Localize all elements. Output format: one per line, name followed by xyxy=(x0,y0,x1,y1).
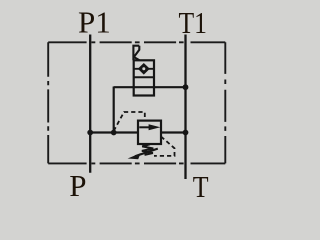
svg-text:T1: T1 xyxy=(179,5,208,40)
enclosure: valve block boundary (dash-dot rectangle) xyxy=(48,42,225,163)
wire: branch vertical from check valve down to relief inlet xyxy=(113,87,115,133)
relief valve RV1 xyxy=(128,121,161,160)
check valve V1 xyxy=(133,46,154,96)
enclosure left edge xyxy=(47,42,49,163)
pilot line (dashed) from inlet junction to relief valve top xyxy=(114,112,145,131)
check valve ball xyxy=(142,67,145,70)
junction dot: P line at relief branch xyxy=(87,130,93,136)
check valve spring xyxy=(133,46,139,61)
enclosure top edge xyxy=(48,41,225,43)
check valve divider xyxy=(134,76,154,78)
svg-text:P1: P1 xyxy=(78,5,111,40)
check valve seat diamond xyxy=(138,63,150,75)
svg-text:P: P xyxy=(69,168,86,203)
junction dot: T line at relief outlet xyxy=(183,130,189,136)
relief valve spring xyxy=(142,144,153,155)
wire: P line to relief valve inlet xyxy=(90,131,139,133)
wire: T1 port vertical line xyxy=(184,35,186,180)
wire: P1 port vertical line xyxy=(89,35,91,173)
relief valve adjustment arrow xyxy=(135,149,158,157)
relief valve flow arrow xyxy=(139,126,152,128)
wire: relief valve outlet to T line xyxy=(160,131,186,133)
relief valve body xyxy=(138,121,161,144)
check valve body xyxy=(134,60,154,95)
junction dot: branch at relief inlet xyxy=(111,130,117,136)
wire: check valve port line (left and right) to T1 xyxy=(114,86,186,88)
junction dot: T1 line at check valve outlet xyxy=(183,84,189,90)
drain line (dashed) from relief valve to spring chamber xyxy=(154,137,175,156)
enclosure right edge xyxy=(224,42,226,163)
enclosure bottom edge xyxy=(48,162,225,164)
svg-text:T: T xyxy=(193,169,209,204)
check valve seat line xyxy=(134,68,154,70)
